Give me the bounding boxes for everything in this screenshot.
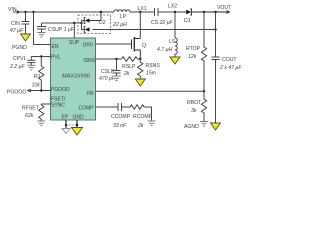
ground below CPVL: [27, 65, 35, 70]
resistor R1: [39, 57, 44, 91]
junction CIN tap: [24, 11, 26, 13]
svg-text:PGND: PGND: [12, 45, 27, 51]
svg-text:R1: R1: [34, 74, 41, 80]
resistor RCOMP: [122, 105, 145, 109]
wire GND stub: [76, 120, 78, 127]
svg-text:COMP: COMP: [79, 106, 95, 112]
svg-text:3k: 3k: [191, 108, 197, 114]
wire EP stub: [65, 120, 67, 128]
diode D2b (anode to VOUT): [82, 27, 90, 33]
wire LP to LX1: [130, 11, 154, 13]
svg-text:D1: D1: [184, 18, 191, 24]
svg-text:CCOMP: CCOMP: [111, 114, 131, 120]
wire LX1 down to Q drain: [139, 12, 141, 39]
ground AGND 3-line below CSUP: [38, 33, 46, 38]
svg-text:SYNC: SYNC: [51, 103, 65, 109]
svg-text:AGND: AGND: [184, 124, 199, 130]
wire DRV to gate: [96, 43, 132, 45]
junction D2 top anode tap: [100, 11, 102, 13]
svg-text:CS 22 µF: CS 22 µF: [151, 20, 174, 26]
wire SUP branch: [42, 23, 75, 38]
junction EN tap: [32, 11, 34, 13]
ground PGND symbol below CIN: [21, 34, 31, 41]
svg-text:ISNS: ISNS: [83, 58, 95, 64]
svg-text:LX2: LX2: [168, 4, 177, 10]
svg-text:RFSET: RFSET: [22, 106, 40, 112]
svg-text:GND: GND: [73, 115, 85, 121]
svg-text:CSUP 1 µF: CSUP 1 µF: [48, 27, 75, 33]
ground EP (signal gnd triangle): [62, 129, 70, 134]
IC U1 MAX16990: [51, 38, 96, 120]
svg-text:SUP: SUP: [69, 40, 80, 46]
svg-text:PGOOD: PGOOD: [51, 87, 70, 93]
inductor LP: [114, 10, 130, 12]
svg-text:EP: EP: [62, 115, 69, 121]
ground below RFSET: [37, 121, 45, 126]
ground PGND below GND pin: [72, 128, 83, 136]
junction SUP node: [73, 22, 75, 24]
svg-text:4.7 µH: 4.7 µH: [157, 47, 173, 53]
svg-text:12k: 12k: [188, 54, 197, 60]
svg-text:EN: EN: [52, 44, 59, 50]
capacitor CPVL: [27, 57, 35, 66]
wire EN branch from rail: [34, 12, 51, 45]
wire VIN input stub with arrow: [13, 10, 21, 14]
svg-text:DRV: DRV: [83, 42, 94, 48]
resistor RSNS: [138, 59, 143, 79]
svg-text:33 nF: 33 nF: [113, 123, 127, 129]
wire D2b anode to VOUT node: [93, 29, 216, 31]
svg-text:LS: LS: [169, 39, 176, 45]
svg-text:PGOOD: PGOOD: [7, 90, 26, 96]
svg-text:2.2 µF: 2.2 µF: [9, 64, 26, 70]
svg-text:CPVL: CPVL: [13, 56, 27, 62]
capacitor CS (SEPIC coupling): [155, 8, 176, 16]
svg-text:COUT: COUT: [222, 57, 237, 63]
svg-text:RCOMP: RCOMP: [133, 114, 153, 120]
svg-text:22 µH: 22 µH: [112, 22, 127, 28]
transistor Q (n-channel MOSFET): [132, 37, 141, 59]
wire ISNS: [96, 58, 122, 60]
ground PGND below COUT: [211, 123, 221, 130]
capacitor CSUP: [37, 23, 46, 33]
wire FB to divider: [96, 90, 205, 92]
svg-text:470 pF: 470 pF: [99, 76, 116, 82]
svg-text:10k: 10k: [32, 83, 41, 89]
svg-text:47 µF: 47 µF: [10, 28, 24, 34]
svg-text:LP: LP: [120, 14, 127, 20]
inductor LS: [174, 12, 176, 38]
dashed box optional diode network D2: [78, 15, 111, 34]
svg-text:MAX16990: MAX16990: [62, 74, 91, 80]
svg-text:RSNS: RSNS: [146, 63, 161, 69]
wire D2 common cathode: [74, 22, 81, 24]
wire dashed EP-GND tie: [66, 124, 77, 126]
ground PGND below RSNS: [135, 79, 145, 86]
resistor RFSET: [39, 104, 44, 120]
svg-text:2k: 2k: [137, 123, 144, 129]
resistor RTOP: [203, 12, 205, 46]
capacitor CSLP: [113, 59, 121, 76]
svg-text:CSLP: CSLP: [101, 69, 115, 75]
svg-text:2 x 47 µF: 2 x 47 µF: [219, 65, 242, 71]
junction RTOP tap: [203, 11, 205, 13]
svg-text:FB: FB: [87, 91, 94, 97]
svg-text:PVL: PVL: [51, 55, 61, 61]
svg-text:15m: 15m: [146, 71, 157, 77]
diode D1: [175, 9, 230, 15]
svg-text:RBOT: RBOT: [187, 100, 202, 106]
resistor RSLP: [122, 57, 140, 62]
wire PVL: [31, 56, 50, 58]
junction D2b wire to output: [214, 28, 216, 30]
svg-text:CIN: CIN: [11, 21, 20, 27]
capacitor CIN: [22, 12, 30, 34]
ground below RCOMP: [148, 121, 156, 126]
junction sense node: [139, 58, 141, 60]
ground PGND below LS: [170, 57, 180, 64]
diode D2a (anode to VIN): [82, 12, 102, 23]
svg-text:62k: 62k: [25, 113, 34, 119]
junction COUT tap: [214, 11, 216, 13]
wire COMP: [96, 106, 119, 108]
capacitor CCOMP: [118, 103, 127, 111]
wire top rail VIN to LP: [19, 11, 114, 13]
svg-text:Q: Q: [142, 43, 146, 49]
capacitor COUT: [212, 12, 220, 123]
ground below CSLP: [113, 76, 121, 81]
resistor RBOT: [201, 91, 206, 114]
svg-text:LX1: LX1: [138, 6, 147, 12]
svg-text:2k: 2k: [123, 71, 130, 77]
svg-text:RSLP: RSLP: [122, 64, 136, 70]
wire FSET: [41, 103, 50, 105]
svg-text:VOUT: VOUT: [217, 5, 232, 11]
wire PGOOD with arrow: [27, 90, 51, 92]
svg-text:RTOP: RTOP: [186, 46, 201, 52]
ground AGND below RBOT: [200, 122, 208, 127]
